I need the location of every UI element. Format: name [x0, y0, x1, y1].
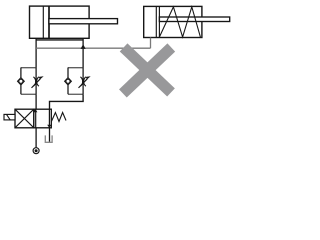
wire: valve2 step down to directional valve: [50, 94, 84, 109]
exhaust symbol: [45, 135, 52, 142]
throttle arrow: [32, 79, 41, 88]
main line through valve: [35, 68, 37, 95]
compressed air source: [33, 148, 39, 154]
check valve: [18, 78, 25, 85]
solenoid: [4, 114, 15, 120]
check valve: [65, 78, 72, 85]
big gray X: [123, 47, 171, 93]
wire: left port down: [35, 38, 37, 67]
wire: right port down: [82, 38, 84, 67]
main line through valve: [82, 68, 84, 95]
spring: [159, 7, 200, 37]
directional valve 1V3 4/2 way: [4, 109, 66, 128]
wire: exhaust stub: [49, 128, 51, 142]
wire: valve1 to directional valve: [35, 94, 37, 109]
cylinder 1A2 single-acting spring return: [144, 6, 230, 37]
flow control valve 1V1: [18, 68, 44, 95]
throttle arcs: [80, 77, 82, 86]
wire: to source: [35, 128, 37, 148]
flow control valve 1V2: [65, 68, 91, 95]
throttle arrow: [79, 79, 88, 88]
straight flow paths: [35, 109, 37, 128]
throttle arcs: [33, 77, 35, 86]
junction arrow: [81, 44, 86, 49]
spring: [51, 113, 66, 122]
wire: cylinder 1A2 port gray: [150, 38, 152, 49]
wire: horizontal dark y40: [36, 39, 83, 41]
cylinder 1A1 double-acting: [30, 6, 118, 38]
crossed position: [15, 109, 34, 128]
wire: horizontal gray y48: [36, 47, 150, 49]
